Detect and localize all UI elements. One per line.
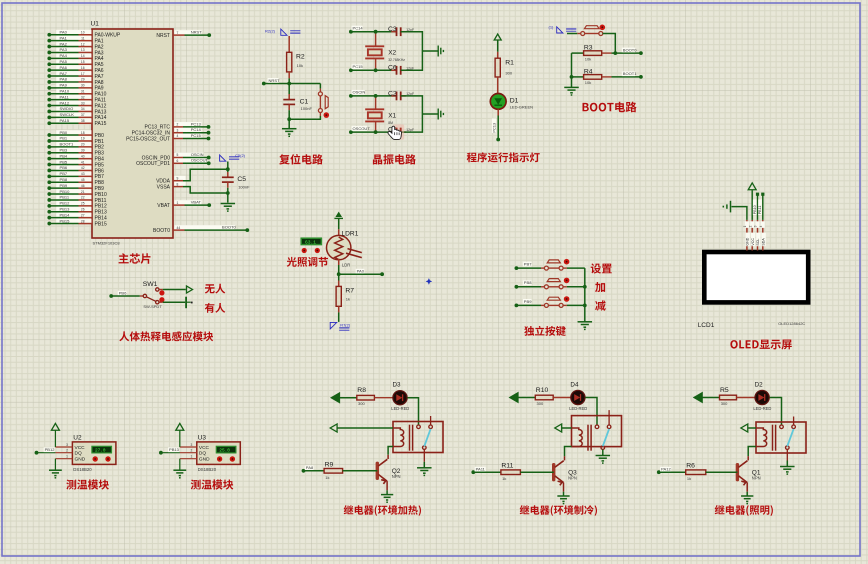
node PA6 xyxy=(47,68,51,72)
svg-text:OLED128642C: OLED128642C xyxy=(778,321,805,326)
net label PB10 rotated xyxy=(753,200,757,216)
svg-text:PA15: PA15 xyxy=(60,118,70,123)
LDR value display xyxy=(301,238,321,244)
ground relay K2 cooling xyxy=(596,456,611,464)
node PA12 terminal xyxy=(657,470,661,474)
svg-text:8M: 8M xyxy=(388,121,393,125)
ground relay K3 lighting xyxy=(780,467,795,475)
node X1 bottom junction xyxy=(374,130,378,134)
svg-text:PB8: PB8 xyxy=(60,177,68,182)
wire net PB4 to U1 pin 40 xyxy=(56,154,91,159)
ground below C5 xyxy=(221,204,236,212)
svg-text:PB9: PB9 xyxy=(60,183,68,188)
wire button 3 to rail xyxy=(563,304,567,306)
relay K2 cooling lever xyxy=(603,429,609,446)
svg-text:300: 300 xyxy=(505,70,512,75)
node PC15 xyxy=(207,137,211,141)
svg-text:LED-RED: LED-RED xyxy=(753,406,771,411)
node PA11 xyxy=(47,98,51,102)
node PA3 xyxy=(47,51,51,55)
svg-text:8: 8 xyxy=(177,182,179,186)
svg-text:PA1: PA1 xyxy=(60,35,68,40)
U1 pin 8 VSSA wire to C5 bottom xyxy=(175,182,186,187)
wire D1 to PC13 terminal xyxy=(497,116,499,140)
wire net PA11 to U1 pin 32 xyxy=(56,95,91,100)
svg-text:PB6: PB6 xyxy=(119,291,127,296)
wire relay K2 cooling common to ground xyxy=(602,448,604,450)
node PB8 xyxy=(47,180,51,184)
svg-text:PB1: PB1 xyxy=(60,136,68,141)
svg-text:C2: C2 xyxy=(388,90,397,97)
svg-text:R1: R1 xyxy=(505,59,514,66)
wire U2 GND to ground xyxy=(54,459,56,471)
svg-text:OSCIN: OSCIN xyxy=(191,152,204,157)
ground crystal X1 xyxy=(438,109,443,120)
svg-text:45: 45 xyxy=(81,178,85,182)
svg-text:63.1: 63.1 xyxy=(305,240,316,246)
svg-text:20: 20 xyxy=(81,143,85,147)
blue origin marker xyxy=(426,278,433,285)
svg-text:37: 37 xyxy=(81,113,85,117)
svg-text:R6: R6 xyxy=(686,463,695,470)
node X2 top junction xyxy=(374,30,378,34)
node rail junction 2 xyxy=(583,304,587,308)
resistor R11 xyxy=(501,470,521,475)
wire OLED GND to ground xyxy=(732,207,747,220)
capacitor C1 xyxy=(283,100,295,105)
svg-text:NRST: NRST xyxy=(156,33,170,39)
svg-text:R5: R5 xyxy=(720,387,729,394)
svg-text:1: 1 xyxy=(191,455,193,459)
label 无人 xyxy=(205,284,226,294)
relay K2 cooling core xyxy=(588,425,591,451)
wire power to R8 xyxy=(339,397,357,399)
wire Q3 emitter to ground xyxy=(563,483,565,492)
svg-text:27.0: 27.0 xyxy=(95,449,106,454)
node PB13 xyxy=(47,210,51,214)
power bar terminal LDR xyxy=(335,212,342,217)
wire C1 top lead xyxy=(288,84,290,95)
svg-text:44: 44 xyxy=(177,226,181,230)
wire net PA7 to U1 pin 17 xyxy=(56,71,91,76)
node PC14 terminal xyxy=(349,30,353,34)
svg-text:34: 34 xyxy=(81,107,85,111)
node NRST junction xyxy=(287,82,291,86)
svg-text:1k: 1k xyxy=(502,476,506,481)
ground reset circuit xyxy=(282,129,297,137)
svg-text:10k: 10k xyxy=(585,56,591,61)
svg-text:R9: R9 xyxy=(325,461,334,468)
wire U3 VCC to power xyxy=(179,431,181,448)
wire PB6 to SW1 xyxy=(111,295,140,297)
U1 pin 3 PC14-OSC32_IN wire xyxy=(175,128,202,133)
U1 pin 9 VDDA wire to C5 top xyxy=(175,176,186,181)
wire SW1 throw1 to arrow xyxy=(159,289,163,291)
node PC14 xyxy=(207,131,211,135)
svg-text:R10: R10 xyxy=(536,387,549,394)
capacitor C3 xyxy=(397,27,401,36)
R7 bottom lead xyxy=(338,306,340,312)
svg-text:5: 5 xyxy=(177,153,179,157)
node SDA terminal xyxy=(761,193,764,196)
svg-text:11: 11 xyxy=(81,36,85,40)
LCD1 OLED display body xyxy=(704,252,808,302)
wire C1 bottom lead xyxy=(288,104,290,110)
LCD1 pin name SDA rotated xyxy=(762,233,766,247)
svg-text:PA8: PA8 xyxy=(306,465,314,470)
svg-text:39: 39 xyxy=(81,148,85,152)
wire Q1 emitter to ground xyxy=(746,483,748,492)
wire R6 to base xyxy=(706,471,738,473)
LCD1 pin number 3 xyxy=(756,221,760,228)
svg-text:PB11: PB11 xyxy=(60,195,70,200)
svg-text:SWDIO: SWDIO xyxy=(60,106,74,111)
svg-text:R7(2): R7(2) xyxy=(340,323,351,328)
boot button toggle marker xyxy=(600,25,606,31)
wire R8 to D3 xyxy=(374,397,392,399)
svg-text:PB11: PB11 xyxy=(758,206,762,215)
LCD1 pin 2 VCC stub xyxy=(751,220,753,251)
wire PC15 to C6 xyxy=(351,69,397,71)
svg-text:SCL: SCL xyxy=(756,239,760,246)
relay K1 heating core xyxy=(410,425,413,451)
node C5 bottom junction xyxy=(226,191,230,195)
LDR1 bottom lead xyxy=(338,259,340,265)
svg-text:PB13: PB13 xyxy=(60,206,71,211)
node BOOT1 xyxy=(47,145,51,149)
wire power to R10 xyxy=(518,397,536,399)
wire OLED VCC to power xyxy=(751,190,753,220)
svg-text:3: 3 xyxy=(66,443,68,447)
relay K1 heating box xyxy=(393,422,443,453)
label 主芯片 xyxy=(119,253,151,264)
net label PC13 rotated xyxy=(492,119,496,134)
key 2 toggle marker xyxy=(564,278,570,284)
svg-text:25.0: 25.0 xyxy=(219,449,230,454)
wire R2 to NRST node xyxy=(288,78,290,83)
svg-text:PA9: PA9 xyxy=(60,83,68,88)
svg-text:R2(2): R2(2) xyxy=(265,28,276,33)
wire net PA5 to U1 pin 15 xyxy=(56,59,91,64)
wire R7 to terminal xyxy=(338,312,340,322)
node PA12 xyxy=(47,104,51,108)
wire C5 top lead xyxy=(227,169,229,172)
svg-text:1: 1 xyxy=(743,225,747,227)
LED D2 LED-RED xyxy=(755,390,769,404)
svg-text:10k: 10k xyxy=(297,63,303,68)
svg-text:DS18B20: DS18B20 xyxy=(198,467,217,472)
node PA7 xyxy=(47,74,51,78)
svg-text:LED-RED: LED-RED xyxy=(391,406,409,411)
U3 pin 1 GND stub xyxy=(180,458,197,460)
wire net PA4 to U1 pin 14 xyxy=(56,54,91,59)
U2 value display xyxy=(92,446,112,453)
label 设置 xyxy=(591,263,612,273)
svg-text:LCD1: LCD1 xyxy=(698,322,715,329)
wire button bottom to C1 xyxy=(319,113,321,117)
svg-text:VBAT: VBAT xyxy=(157,203,170,209)
svg-text:U1: U1 xyxy=(91,21,100,28)
svg-text:GND: GND xyxy=(75,457,86,463)
svg-text:C5(2): C5(2) xyxy=(235,153,246,158)
LED D3 LED-RED xyxy=(393,391,407,405)
U3 adjust buttons xyxy=(217,456,222,461)
U3 DS18B20 module body xyxy=(197,442,241,465)
resistor R8 xyxy=(357,395,375,400)
wire OLED SCL stub xyxy=(757,195,759,220)
svg-text:32: 32 xyxy=(81,95,85,99)
svg-text:PC15-OSC32_OUT: PC15-OSC32_OUT xyxy=(126,136,170,142)
U1 pin 4 PC15-OSC32_OUT wire xyxy=(175,134,202,139)
svg-text:PB5: PB5 xyxy=(60,159,68,164)
label 继电器(环境制冷) xyxy=(520,505,597,516)
push button boot xyxy=(581,26,603,36)
node PB15 xyxy=(47,222,51,226)
node LDR junction xyxy=(337,272,341,276)
svg-text:(1): (1) xyxy=(549,25,555,30)
svg-text:3: 3 xyxy=(191,443,193,447)
wire power to LDR1 xyxy=(338,218,340,229)
svg-text:PA10: PA10 xyxy=(60,88,70,93)
wire power to R1 xyxy=(497,40,499,52)
svg-text:19: 19 xyxy=(81,137,85,141)
LDR1 top lead xyxy=(338,229,340,236)
U1 pin 2 PC13_RTC wire xyxy=(175,122,202,127)
resistor R5 xyxy=(720,395,737,400)
LDR adjust buttons xyxy=(302,248,307,253)
relay K3 lighting box xyxy=(756,422,806,453)
node C1 bottom junction xyxy=(287,117,291,121)
R1 top lead xyxy=(497,52,499,58)
svg-text:PA11: PA11 xyxy=(60,94,70,99)
resistor R2 xyxy=(287,52,292,72)
svg-text:1k: 1k xyxy=(346,297,350,302)
node BOOT0 xyxy=(245,228,249,232)
power arrow relay K3 lighting coil xyxy=(741,424,748,432)
svg-text:300: 300 xyxy=(721,401,728,406)
wire U2 DQ to PB12 xyxy=(37,452,56,454)
resistor R7 xyxy=(336,286,341,306)
power arrow R8 xyxy=(331,393,339,403)
svg-text:21: 21 xyxy=(81,190,85,194)
key 3 toggle marker xyxy=(564,296,570,302)
wire R4 to BOOT1 xyxy=(602,76,612,78)
svg-text:DS18B20: DS18B20 xyxy=(73,467,92,472)
node PB12 terminal xyxy=(35,451,39,455)
IC U1 STM32F103C8 MCU body xyxy=(92,29,173,238)
node PB7 terminal xyxy=(515,266,519,270)
wire to rotated ground xyxy=(422,113,438,115)
svg-text:BOOT1: BOOT1 xyxy=(623,71,637,76)
wire to rotated ground xyxy=(422,50,438,52)
wire keys common rail xyxy=(584,268,586,322)
node OSCOUT terminal xyxy=(349,130,353,134)
svg-text:42: 42 xyxy=(81,166,85,170)
svg-text:30: 30 xyxy=(81,84,85,88)
relay K3 lighting coil xyxy=(756,428,767,447)
svg-text:VCC: VCC xyxy=(75,445,86,451)
wire R4 left lead xyxy=(572,76,584,78)
svg-text:DQ: DQ xyxy=(199,451,206,457)
U3 value display xyxy=(216,446,236,453)
node BOOT1 terminal xyxy=(639,75,643,79)
wire OSCIN to C2 xyxy=(351,95,397,97)
wire net PA12 to U1 pin 33 xyxy=(56,101,91,106)
svg-text:X2: X2 xyxy=(388,50,396,57)
wire relay K3 lighting common to ground xyxy=(786,449,788,460)
node PA0 terminal xyxy=(380,272,384,276)
svg-text:VCC: VCC xyxy=(199,445,210,451)
svg-text:PA4: PA4 xyxy=(60,53,68,58)
svg-text:32.768KHz: 32.768KHz xyxy=(388,58,405,62)
svg-text:PA0: PA0 xyxy=(357,269,365,274)
svg-text:2: 2 xyxy=(191,449,193,453)
svg-text:PB15: PB15 xyxy=(60,218,71,223)
relay K2 cooling contacts xyxy=(595,410,611,449)
wire net PA6 to U1 pin 16 xyxy=(56,65,91,70)
svg-text:41: 41 xyxy=(81,160,85,164)
wire relay K2 cooling coil to Q3 collector xyxy=(565,447,572,457)
svg-text:OSCIN: OSCIN xyxy=(353,90,366,95)
svg-text:LED-GREEN: LED-GREEN xyxy=(510,105,533,110)
label 光照调节 xyxy=(287,257,328,267)
label 晶振电路 xyxy=(373,154,416,164)
wire Q2 emitter to ground xyxy=(386,481,388,490)
svg-text:OSCOUT: OSCOUT xyxy=(353,126,371,131)
transistor Q1 NPN xyxy=(736,463,739,481)
wire net PA8 to U1 pin 29 xyxy=(56,77,91,82)
U2 pin 3 VCC stub xyxy=(55,446,72,448)
node PC13 xyxy=(207,125,211,129)
wire X2 top lead xyxy=(375,32,377,47)
node PB7 xyxy=(47,174,51,178)
wire right rail C3/C6 xyxy=(401,32,423,71)
relay K3 lighting core xyxy=(773,425,776,451)
node OSCIN xyxy=(207,156,211,160)
svg-text:NPN: NPN xyxy=(568,476,577,481)
wire X2 bottom lead xyxy=(375,58,377,70)
wire net PB12 to U1 pin 25 xyxy=(56,201,91,206)
svg-text:PA8: PA8 xyxy=(60,77,68,82)
node PA2 xyxy=(47,45,51,49)
svg-text:28: 28 xyxy=(81,219,85,223)
C5 bottom lead xyxy=(227,182,229,188)
push button key 2 xyxy=(544,279,563,289)
node PA5 xyxy=(47,62,51,66)
wire PB7 to button xyxy=(516,267,541,269)
node PB3 xyxy=(47,151,51,155)
svg-text:PB12: PB12 xyxy=(60,201,71,206)
svg-text:25: 25 xyxy=(81,202,85,206)
resistor R3 xyxy=(584,51,602,56)
wire X1 bottom lead xyxy=(375,121,377,132)
LDR1 photoresistor xyxy=(327,235,351,259)
svg-text:300: 300 xyxy=(537,401,544,406)
U2 adjust buttons xyxy=(93,456,98,461)
svg-text:PA0: PA0 xyxy=(60,29,68,34)
wire net PB10 to U1 pin 21 xyxy=(56,189,91,194)
svg-text:PB8: PB8 xyxy=(524,280,532,285)
ground Q1 xyxy=(741,496,753,504)
push button key 1 xyxy=(544,260,563,270)
D1 bottom lead xyxy=(497,109,499,115)
svg-text:R3: R3 xyxy=(584,45,593,52)
node PC13 terminal xyxy=(496,138,500,142)
svg-text:PB6: PB6 xyxy=(60,165,68,170)
node PB9 terminal xyxy=(515,304,519,308)
resistor R6 xyxy=(686,470,706,475)
relay K1 heating coil xyxy=(393,428,404,447)
svg-text:2: 2 xyxy=(177,123,179,127)
svg-text:STM32F103C8: STM32F103C8 xyxy=(93,241,121,246)
svg-text:1k: 1k xyxy=(325,475,329,480)
svg-text:18: 18 xyxy=(81,131,85,135)
node PB6 xyxy=(47,169,51,173)
wire net PB3 to U1 pin 39 xyxy=(56,148,91,153)
svg-text:100nF: 100nF xyxy=(301,106,313,111)
wire relay K1 heating coil to Q2 collector xyxy=(388,447,393,455)
wire R3 to BOOT0 xyxy=(602,52,612,54)
label 测温模块 U2 xyxy=(66,479,109,489)
wire relay K1 heating common to ground xyxy=(423,449,425,461)
label OLED显示屏 xyxy=(730,340,791,350)
wire R1 to D1 xyxy=(497,77,499,94)
node rail junction 1 xyxy=(583,285,587,289)
wire PA12 to R6 xyxy=(659,471,686,473)
wire right rail C2/C4 xyxy=(401,96,423,132)
node PB1 xyxy=(47,139,51,143)
resistor R9 xyxy=(324,469,343,474)
capacitor C5 xyxy=(222,177,234,182)
wire net BOOT1 to U1 pin 20 xyxy=(56,142,91,147)
node SWDIO xyxy=(47,110,51,114)
wire power to R5 xyxy=(702,397,720,399)
node PB13 terminal xyxy=(159,451,163,455)
wire net PB6 to U1 pin 42 xyxy=(56,166,91,171)
node PB9 xyxy=(47,186,51,190)
label 测温模块 U3 xyxy=(191,479,234,489)
svg-text:9: 9 xyxy=(177,176,179,180)
svg-text:4: 4 xyxy=(177,134,179,138)
svg-text:2: 2 xyxy=(66,449,68,453)
svg-text:1: 1 xyxy=(66,455,68,459)
relay K1 heating contacts xyxy=(417,416,433,449)
capacitor C4 xyxy=(397,128,401,137)
svg-text:R4: R4 xyxy=(584,68,593,75)
wire button to BOOT0 node xyxy=(603,34,616,54)
svg-text:GND: GND xyxy=(746,237,750,245)
U1 pin 5 OSCIN_PD0 wire xyxy=(175,153,204,158)
svg-text:38: 38 xyxy=(81,119,85,123)
node OSCIN terminal xyxy=(349,94,353,98)
ground U3 xyxy=(173,470,186,478)
node PA0 xyxy=(47,33,51,37)
node PA11 terminal xyxy=(471,470,475,474)
node PB12 xyxy=(47,204,51,208)
LCD1 pin number 1 xyxy=(745,221,749,228)
svg-text:12: 12 xyxy=(81,42,85,46)
svg-text:PA5: PA5 xyxy=(60,59,68,64)
wire R3 left lead xyxy=(572,52,584,54)
wire X1 top lead xyxy=(375,96,377,109)
R7 top lead xyxy=(338,281,340,287)
power terminal U2 xyxy=(51,423,59,430)
U2 pin 1 GND stub xyxy=(55,458,72,460)
node R4 junction xyxy=(570,75,574,79)
svg-text:LED-RED: LED-RED xyxy=(569,406,587,411)
LCD1 pin 1 GND stub xyxy=(746,220,748,251)
relay K2 cooling box xyxy=(572,416,622,447)
